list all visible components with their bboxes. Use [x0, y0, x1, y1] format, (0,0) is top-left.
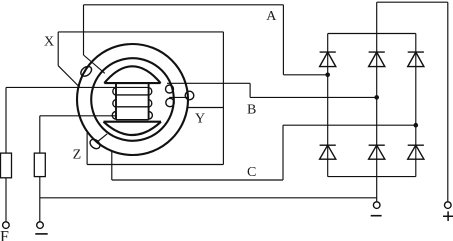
terminal F: [3, 222, 10, 229]
junction dot C: [414, 123, 419, 128]
wire X diagonal: [58, 66, 80, 88]
column 3 wire: [415, 34, 417, 177]
diode D5: [369, 145, 385, 159]
field wire bottom (to brush 2): [40, 116, 116, 153]
svg-text:Y: Y: [195, 111, 205, 126]
field coil turns right: [149, 88, 153, 120]
rotor top pole: [104, 66, 160, 83]
stator inner circle: [91, 58, 174, 141]
ground wire to rectifier minus: [40, 197, 377, 199]
label plus: [443, 211, 453, 221]
stator winding loop right-inner-top: [166, 85, 174, 93]
terminal minus (brush): [37, 222, 44, 229]
junction dot A: [325, 73, 330, 78]
wire brush2 to terminal minus: [39, 177, 41, 222]
svg-text:B: B: [247, 103, 256, 118]
wire B from machine: [167, 83, 377, 97]
field coil turns left: [112, 88, 116, 120]
svg-text:C: C: [247, 165, 256, 180]
stator winding loop lower-left: [88, 137, 102, 150]
neutral bus X-Y-Z: [58, 32, 223, 165]
wire Y: [187, 107, 223, 109]
stator loop right connector: [169, 96, 187, 98]
field wire top (to brush 1): [6, 87, 149, 153]
svg-text:A: A: [266, 9, 277, 24]
rotor bottom pole: [104, 122, 162, 135]
wire C from machine: [112, 125, 416, 180]
brush 2: [34, 153, 45, 177]
label minus (rectifier): [371, 215, 382, 217]
column 1 wire: [327, 34, 329, 177]
stator winding loop upper-left: [79, 64, 94, 78]
wire A from machine: [84, 5, 328, 75]
stator outer circle: [77, 44, 188, 155]
junction dot B: [374, 95, 379, 100]
stator loop lower-left connector: [97, 134, 108, 143]
terminal plus: [445, 202, 452, 209]
diode D2: [369, 52, 385, 67]
terminal minus (rectifier): [373, 202, 380, 209]
rectifier bottom rail: [328, 176, 416, 178]
svg-text:F: F: [0, 229, 9, 241]
brush 1: [1, 153, 12, 178]
svg-text:Z: Z: [73, 148, 82, 163]
label minus (brush): [35, 233, 47, 235]
positive output wire: [377, 2, 448, 201]
diode D6: [408, 145, 424, 159]
rectifier top rail: [328, 33, 416, 35]
column 2 wire: [376, 2, 378, 201]
field coil ladder: [116, 83, 149, 120]
diode D4: [320, 145, 336, 159]
stator winding loop right-inner-bottom: [166, 98, 174, 106]
wire brush1 to terminal F: [5, 178, 7, 222]
svg-text:X: X: [44, 35, 54, 50]
stator winding loop right-outer: [185, 91, 194, 100]
diode D1: [320, 52, 336, 67]
diode D3: [408, 52, 424, 67]
